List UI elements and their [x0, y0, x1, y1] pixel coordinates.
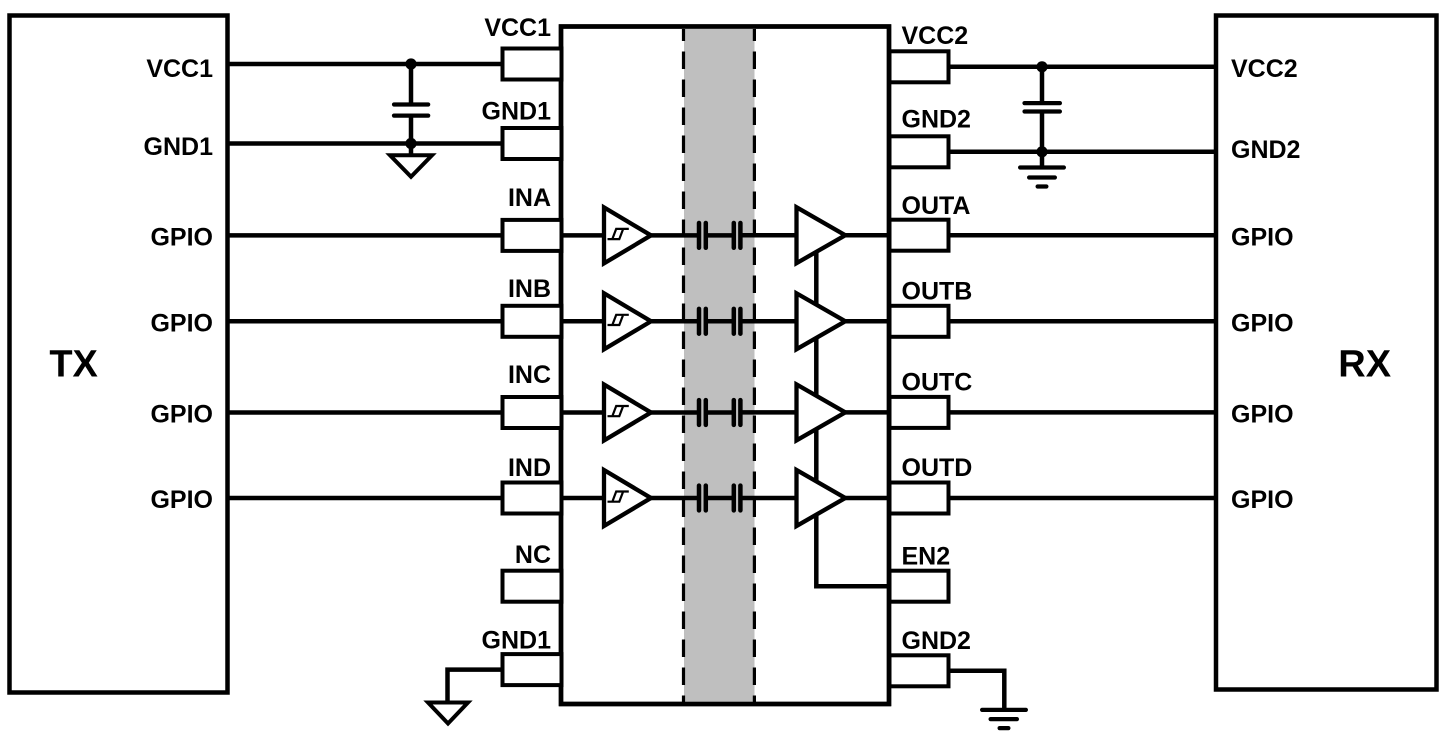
wire capacitor C1 to GND1: [409, 116, 414, 144]
svg-text:IND: IND: [508, 454, 551, 482]
svg-text:VCC2: VCC2: [1231, 55, 1298, 83]
output buffer (channel B): [797, 293, 846, 349]
pin box VCC1 (left pin 1): [503, 49, 562, 80]
output buffer (channel D): [797, 470, 846, 526]
wire caps to output buffer (channel A): [740, 233, 796, 238]
EN2 enable net wire: [816, 240, 890, 586]
wire TX GPIO to pin: [227, 319, 505, 324]
node junction GND1/C1: [405, 138, 416, 149]
schmitt trigger buffer (channel B): [604, 293, 651, 349]
pin box GND2 (right pin 2): [890, 136, 949, 167]
wire output buffer D to OUTD pin: [843, 496, 891, 501]
wire GND2 bottom pin to ground: [947, 671, 1005, 710]
svg-text:GPIO: GPIO: [1231, 224, 1294, 252]
isolation capacitor CA2: [734, 223, 741, 248]
wire output buffer A to OUTA pin: [843, 233, 891, 238]
output buffer (channel C): [797, 384, 846, 440]
isolation capacitor CB2: [734, 309, 741, 334]
pin box INC (left pin 5): [503, 397, 562, 428]
wire between isolation caps (channel B): [706, 319, 734, 324]
pin box OUTB (right pin 4): [890, 306, 949, 337]
isolation capacitor CD1: [699, 486, 706, 511]
wire TX VCC1 to pin: [227, 62, 505, 67]
bypass capacitor C2: [1025, 103, 1060, 111]
wire INA pin to schmitt buffer: [559, 233, 604, 238]
pin box IND (left pin 6): [503, 483, 562, 514]
isolation capacitor CC1: [699, 400, 706, 425]
isolation capacitor CB1: [699, 309, 706, 334]
wire buffer C to isolation caps: [649, 410, 699, 415]
schmitt trigger buffer (channel A): [604, 207, 651, 263]
svg-text:NC: NC: [515, 541, 551, 569]
svg-text:OUTC: OUTC: [902, 369, 973, 397]
bypass capacitor C1: [394, 105, 428, 116]
svg-text:TX: TX: [49, 344, 98, 386]
pin box GND2 (right pin 8): [890, 655, 949, 686]
pin box VCC2 (right pin 1): [890, 51, 949, 82]
isolation capacitor CC2: [734, 400, 741, 425]
svg-text:GPIO: GPIO: [150, 310, 213, 338]
node junction VCC2/C2: [1036, 61, 1047, 72]
wire GND1 stub to ground symbol: [409, 144, 414, 157]
isolation barrier shaded region: [684, 29, 755, 702]
svg-text:INB: INB: [508, 275, 551, 303]
wire GND2 stub to ground symbol: [1040, 152, 1045, 168]
svg-text:GND2: GND2: [902, 627, 971, 655]
wire buffer D to isolation caps: [649, 496, 699, 501]
wire TX GPIO to pin: [227, 233, 505, 238]
RX block box: [1216, 16, 1437, 690]
node junction VCC1/C1: [405, 58, 416, 69]
svg-text:GND1: GND1: [144, 133, 214, 161]
svg-text:GND2: GND2: [1231, 136, 1300, 164]
wire TX GND1 to pin: [227, 141, 505, 146]
svg-text:GND1: GND1: [482, 98, 552, 126]
wire output buffer B to OUTB pin: [843, 319, 891, 324]
wire pin to RX GPIO: [947, 319, 1218, 324]
wire GND1 bottom pin to ground: [448, 670, 505, 703]
isolation capacitor CA1: [699, 223, 706, 248]
isolator IC border (overdraw): [561, 27, 889, 705]
wire capacitor C2 to GND2: [1040, 112, 1045, 152]
svg-text:INA: INA: [508, 184, 551, 212]
svg-text:INC: INC: [508, 361, 551, 389]
wire pin to RX GND2: [947, 150, 1218, 155]
wire caps to output buffer (channel B): [740, 319, 796, 324]
svg-text:GPIO: GPIO: [1231, 310, 1294, 338]
svg-text:GPIO: GPIO: [1231, 486, 1294, 514]
svg-text:OUTD: OUTD: [902, 454, 973, 482]
isolator IC U1 body: [561, 27, 889, 705]
wire buffer B to isolation caps: [649, 319, 699, 324]
pin box NC (left pin 7): [503, 571, 562, 602]
svg-text:GPIO: GPIO: [150, 401, 213, 429]
TX block box: [10, 16, 228, 693]
svg-text:EN2: EN2: [902, 543, 951, 571]
svg-text:GPIO: GPIO: [150, 224, 213, 252]
pin box INB (left pin 4): [503, 306, 562, 337]
wire TX GPIO to pin: [227, 496, 505, 501]
wire VCC1 to capacitor C1: [409, 64, 414, 105]
schmitt trigger buffer (channel C): [604, 385, 651, 441]
ground symbol GND1 (triangle): [390, 155, 432, 177]
svg-text:GPIO: GPIO: [150, 486, 213, 514]
wire pin to RX VCC2: [947, 65, 1218, 70]
pin box INA (left pin 3): [503, 220, 562, 251]
isolation barrier dashed line (left): [682, 29, 685, 702]
wire pin to RX GPIO: [947, 410, 1218, 415]
pin box OUTA (right pin 3): [890, 220, 949, 251]
svg-text:GND2: GND2: [902, 106, 971, 134]
node junction GND2/C2: [1036, 146, 1047, 157]
wire INB pin to schmitt buffer: [559, 319, 604, 324]
wire caps to output buffer (channel C): [740, 410, 796, 415]
pin box OUTD (right pin 6): [890, 483, 949, 514]
svg-text:OUTB: OUTB: [902, 278, 973, 306]
earth ground symbol GND2 (bottom right): [982, 710, 1026, 728]
wire between isolation caps (channel C): [706, 410, 734, 415]
pin box OUTC (right pin 5): [890, 397, 949, 428]
pin box EN2 (right pin 7): [890, 571, 949, 602]
svg-text:GND1: GND1: [482, 627, 552, 655]
wire output buffer C to OUTC pin: [843, 410, 891, 415]
isolation barrier dashed line (right): [753, 29, 756, 702]
svg-text:GPIO: GPIO: [1231, 401, 1294, 429]
wire buffer A to isolation caps: [649, 233, 699, 238]
svg-text:VCC1: VCC1: [484, 14, 551, 42]
isolation capacitor CD2: [734, 486, 741, 511]
earth ground symbol GND2 (top right): [1020, 168, 1064, 187]
wire VCC2 to capacitor C2: [1040, 67, 1045, 103]
wire between isolation caps (channel A): [706, 233, 734, 238]
output buffer (channel A): [797, 207, 846, 263]
wire INC pin to schmitt buffer: [559, 410, 604, 415]
svg-text:VCC2: VCC2: [902, 22, 969, 50]
wire TX GPIO to pin: [227, 410, 505, 415]
pin box GND1 (left pin 8): [503, 654, 562, 685]
wire between isolation caps (channel D): [706, 496, 734, 501]
svg-text:VCC1: VCC1: [146, 55, 213, 83]
svg-text:OUTA: OUTA: [902, 192, 971, 220]
wire pin to RX GPIO: [947, 496, 1218, 501]
wire IND pin to schmitt buffer: [559, 496, 604, 501]
svg-text:RX: RX: [1338, 344, 1391, 386]
schmitt trigger buffer (channel D): [604, 470, 651, 526]
pin box GND1 (left pin 2): [503, 128, 562, 159]
ground symbol GND1 (bottom, triangle): [428, 703, 468, 724]
wire caps to output buffer (channel D): [740, 496, 796, 501]
wire pin to RX GPIO: [947, 233, 1218, 238]
